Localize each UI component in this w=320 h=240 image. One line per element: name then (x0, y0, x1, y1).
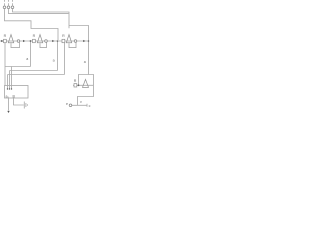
svg-text:R: R (33, 34, 36, 38)
svg-text:v: v (80, 100, 82, 104)
svg-text:a: a (53, 58, 55, 62)
svg-text:e: e (66, 102, 68, 106)
svg-text:R: R (74, 79, 77, 83)
svg-text:R: R (4, 34, 7, 38)
svg-text:a: a (84, 60, 86, 64)
svg-text:R: R (62, 34, 65, 38)
svg-text:c: c (89, 104, 91, 108)
svg-text:a: a (26, 57, 28, 61)
